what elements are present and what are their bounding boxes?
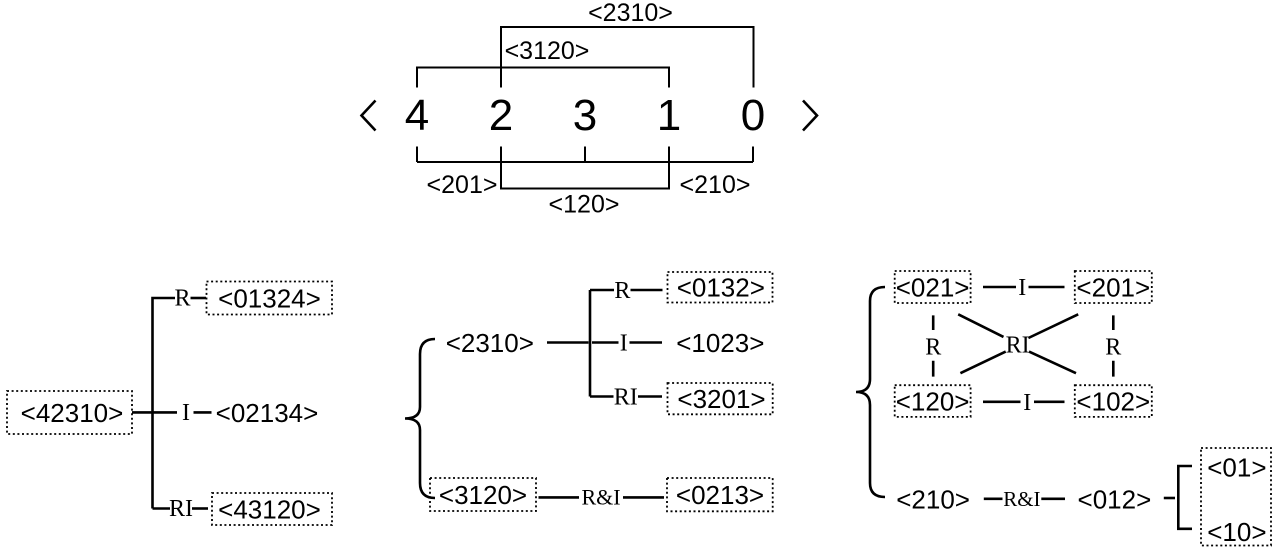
svg-text:<42310>: <42310>: [21, 398, 124, 428]
svg-text:<0213>: <0213>: [676, 480, 764, 510]
svg-text:I: I: [1023, 390, 1031, 416]
svg-text:<2310>: <2310>: [588, 0, 673, 27]
svg-text:<210>: <210>: [896, 485, 970, 515]
svg-text:RI: RI: [169, 496, 193, 522]
svg-text:<102>: <102>: [1076, 386, 1150, 416]
svg-text:R&I: R&I: [1003, 487, 1040, 511]
svg-text:I: I: [182, 400, 190, 426]
svg-text:<02134>: <02134>: [216, 398, 319, 428]
svg-text:<012>: <012>: [1078, 485, 1152, 515]
svg-text:4: 4: [405, 91, 429, 140]
svg-text:RI: RI: [614, 385, 638, 411]
svg-text:<210>: <210>: [680, 171, 751, 199]
svg-text:<0132>: <0132>: [677, 273, 765, 303]
svg-text:R: R: [925, 335, 941, 361]
svg-text:<120>: <120>: [549, 191, 620, 219]
svg-text:R: R: [174, 285, 190, 311]
svg-text:<3120>: <3120>: [505, 37, 590, 65]
svg-text:<2310>: <2310>: [446, 328, 534, 358]
svg-text:I: I: [620, 331, 628, 357]
svg-text:<10>: <10>: [1207, 517, 1266, 547]
svg-text:I: I: [1018, 275, 1026, 301]
svg-text:R&I: R&I: [581, 485, 620, 510]
svg-text:RI: RI: [1006, 332, 1030, 358]
svg-text:<3201>: <3201>: [677, 384, 765, 414]
svg-text:<43120>: <43120>: [218, 494, 321, 524]
svg-text:<021>: <021>: [896, 272, 970, 302]
svg-text:2: 2: [489, 91, 513, 140]
svg-text:<3120>: <3120>: [439, 480, 527, 510]
svg-text:<201>: <201>: [1076, 272, 1150, 302]
svg-text:<01>: <01>: [1207, 452, 1266, 482]
svg-text:<1023>: <1023>: [676, 328, 764, 358]
svg-text:<120>: <120>: [896, 386, 970, 416]
svg-text:0: 0: [741, 91, 765, 140]
svg-text:<201>: <201>: [427, 171, 498, 199]
svg-text:R: R: [614, 278, 630, 304]
svg-text:1: 1: [657, 91, 681, 140]
svg-text:<01324>: <01324>: [218, 283, 321, 313]
svg-text:3: 3: [573, 91, 597, 140]
svg-text:R: R: [1105, 335, 1121, 361]
